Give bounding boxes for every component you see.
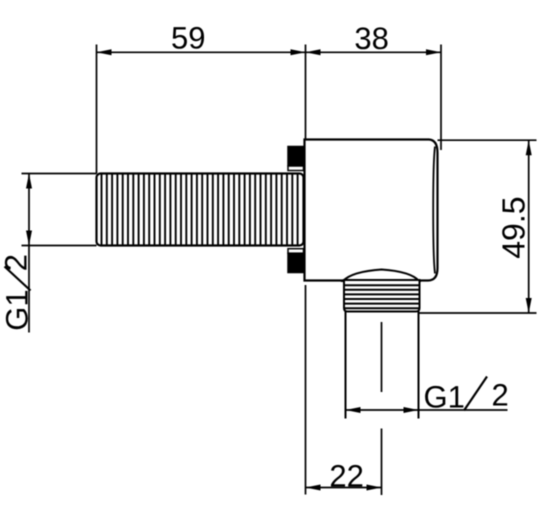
svg-text:22: 22 <box>329 459 363 494</box>
svg-text:38: 38 <box>354 21 388 56</box>
svg-text:G1: G1 <box>0 289 35 330</box>
svg-text:49.5: 49.5 <box>496 196 532 258</box>
svg-text:59: 59 <box>171 21 205 56</box>
svg-text:2: 2 <box>0 254 34 271</box>
svg-text:G1: G1 <box>424 379 465 414</box>
svg-text:2: 2 <box>492 377 509 412</box>
